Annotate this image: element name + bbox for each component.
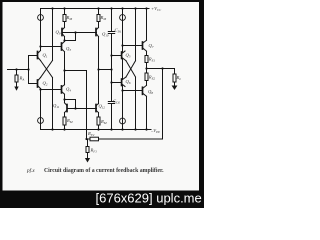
frame left border xyxy=(0,0,3,208)
transistor Q2 xyxy=(37,80,39,87)
resistor RA xyxy=(16,70,18,76)
transistor Q7 xyxy=(142,42,144,49)
frame top border xyxy=(0,0,204,2)
wire gain node link xyxy=(99,69,112,71)
wire Q9 mirror tie xyxy=(62,32,97,34)
ground RA xyxy=(14,87,18,91)
transistor Q12 xyxy=(95,105,97,112)
wire Q5 base feed xyxy=(112,55,122,57)
transistor Q5 xyxy=(121,52,123,59)
resistor RE2 xyxy=(145,73,148,81)
transistor Q4 xyxy=(61,86,63,93)
wire feedback line xyxy=(87,138,163,140)
svg-text:[676x629] uplc.me: [676x629] uplc.me xyxy=(96,191,202,206)
svg-text:Circuit diagram of a current f: Circuit diagram of a current feedback am… xyxy=(44,168,164,174)
wire output node xyxy=(147,68,175,70)
wire Q8 base feed xyxy=(123,90,143,92)
node X cross input xyxy=(41,61,53,78)
wire input line xyxy=(8,69,29,71)
wire bottom rail -VEE xyxy=(41,129,152,131)
wire Q6 collector to I4 xyxy=(122,86,124,130)
wire buffer output tap xyxy=(65,70,87,72)
resistor RM2 xyxy=(98,9,100,15)
resistor RM1 xyxy=(64,9,66,15)
wire Q10 collector column xyxy=(98,37,100,104)
wire Q3 emitter to Q4 collector xyxy=(64,52,66,85)
transistor Q6 xyxy=(121,79,123,86)
wire inverting node column xyxy=(52,9,54,61)
resistor RM4 xyxy=(98,113,100,117)
wire Q4 base feed xyxy=(41,89,62,91)
transistor Q1 xyxy=(37,52,39,59)
node X cross output xyxy=(126,61,136,77)
resistor RF2 xyxy=(90,137,99,141)
transistor Q8 xyxy=(142,87,144,94)
capacitor CD1 xyxy=(111,9,113,32)
transistor Q11 xyxy=(66,105,68,112)
resistor RF1 xyxy=(87,139,89,147)
transistor Q3 xyxy=(61,43,63,50)
current source I1 xyxy=(40,9,42,47)
resistor RM3 xyxy=(64,113,66,117)
current source I4 xyxy=(120,118,126,124)
wire Q4 emitter xyxy=(64,94,66,103)
wire output X column xyxy=(135,9,137,61)
wire Q2 collector to I2 xyxy=(40,89,42,130)
wire Q7 base feed xyxy=(123,45,143,47)
wire Q11 mirror tie xyxy=(65,99,76,101)
transistor Q10 xyxy=(95,29,97,36)
wire Q6 base feed xyxy=(112,82,122,84)
resistor RE1 xyxy=(146,51,148,55)
svg-text:pf.x: pf.x xyxy=(26,167,35,174)
capacitor CD2 xyxy=(108,101,114,103)
wire Q1 collector xyxy=(40,47,42,51)
wire feedback drop xyxy=(162,69,164,140)
wire input bases column xyxy=(28,56,30,84)
watermark bar xyxy=(0,191,204,209)
wire Q3 base feed xyxy=(41,46,62,48)
frame right border xyxy=(199,0,204,208)
ground RF1 xyxy=(85,158,90,163)
resistor RL xyxy=(173,74,176,82)
current source I2 xyxy=(38,118,44,124)
wire top rail +VCC xyxy=(41,8,150,10)
ground RL xyxy=(172,86,178,91)
current source I3 xyxy=(122,9,124,53)
transistor Q9 xyxy=(62,28,65,31)
